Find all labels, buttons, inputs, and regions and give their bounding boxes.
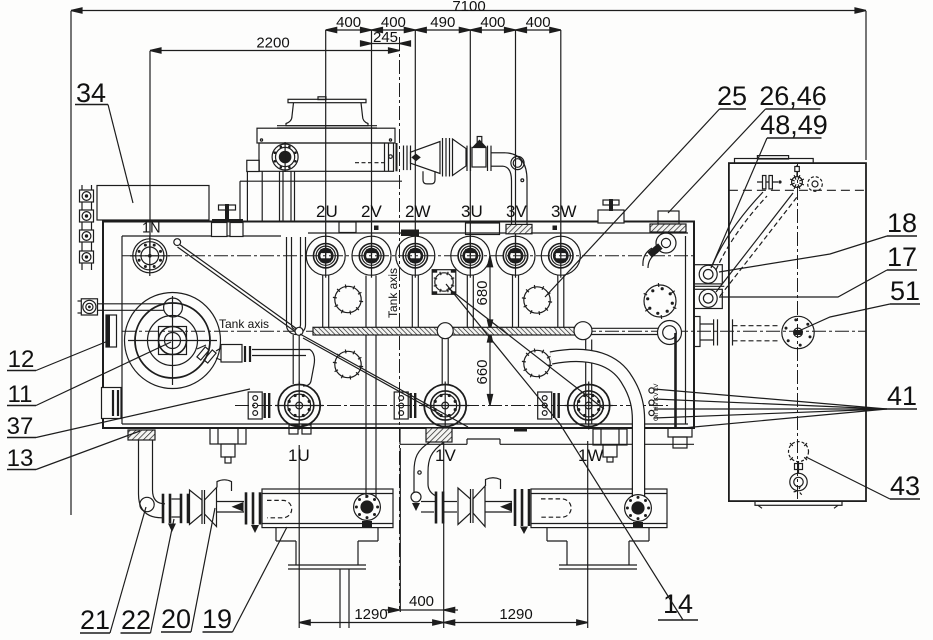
small valve at tank left edge	[78, 299, 98, 315]
dimension 2200	[150, 35, 400, 256]
svg-text:3V: 3V	[506, 202, 527, 221]
jack pad under tank left	[210, 428, 246, 463]
label 20 with leader	[161, 508, 215, 634]
diagonal brace to lower right	[300, 334, 468, 427]
svg-text:34: 34	[76, 78, 106, 108]
butterfly valve item 20	[190, 480, 232, 527]
dashed circle fitting on conservator	[808, 177, 823, 192]
conservator top lid	[735, 156, 814, 164]
horizontal tank axis center line	[122, 330, 866, 332]
label 34 with leader	[75, 78, 133, 203]
svg-text:25: 25	[717, 81, 747, 111]
flange pair B	[181, 494, 188, 524]
svg-text:20: 20	[161, 604, 191, 634]
valve handle on top of manhole	[98, 298, 183, 317]
stud pedestal near 3W	[598, 199, 624, 223]
curved pipe from roller 17 to conservator	[716, 193, 797, 296]
right cooler pedestal	[547, 528, 649, 569]
label 51 with leader	[801, 276, 920, 330]
vertical tank axis center line	[399, 37, 401, 612]
pipe stem under 3V	[513, 276, 519, 328]
ladder bracket strip left	[80, 185, 94, 270]
right cooler box	[531, 489, 667, 528]
corner circle fitting	[643, 233, 676, 268]
valve cross fitting on conservator	[790, 165, 804, 189]
pipe from strip down to 1W	[586, 340, 592, 425]
svg-text:660: 660	[474, 359, 491, 384]
svg-text:14: 14	[663, 589, 693, 619]
bushing 2U	[306, 234, 345, 278]
pipe from strip down to 1U	[293, 335, 299, 384]
label 37 with leader	[7, 389, 250, 440]
bolted opening circle 1	[333, 285, 363, 315]
pipe stem under 2V down to cooler	[366, 276, 376, 499]
square fitting item 14 target	[432, 270, 456, 295]
left edge bracket lower	[102, 388, 122, 419]
turret drum on cable box	[277, 97, 377, 128]
svg-text:21: 21	[80, 605, 110, 635]
bolt dots on tank top band	[374, 226, 557, 231]
cable box flange with dark center	[272, 142, 298, 172]
dimension 245	[360, 29, 411, 46]
bottom dimension 400	[385, 593, 458, 613]
U-turn pipe from cable box legs	[287, 237, 306, 335]
svg-text:2W: 2W	[405, 202, 431, 221]
bushing 1V	[421, 382, 469, 430]
svg-text:400: 400	[480, 14, 505, 31]
joint circle at strip left end	[295, 327, 303, 335]
svg-text:19: 19	[202, 604, 232, 634]
svg-text:Tank axis: Tank axis	[219, 317, 269, 331]
small pads under 1U	[289, 425, 311, 434]
center line of bottom bushing row	[235, 405, 668, 407]
cooler left flange stack	[246, 492, 260, 533]
conservator drain dashed circle	[789, 442, 809, 462]
dark lug under elbow flange	[514, 428, 527, 432]
butterfly valve on 1V pipe	[444, 478, 501, 527]
svg-text:13: 13	[7, 445, 34, 472]
manhole flange item 11	[125, 293, 221, 389]
svg-text:400: 400	[336, 14, 361, 31]
svg-text:2U: 2U	[316, 202, 338, 221]
label 21 with leader	[80, 507, 146, 635]
drop pipe from flange	[139, 440, 153, 494]
svg-text:22: 22	[121, 605, 151, 635]
pipe stem under 3W	[558, 276, 564, 328]
phase labels bottom row	[288, 446, 604, 465]
label 43 with leader	[806, 457, 920, 501]
elbow at bottom left	[139, 490, 166, 518]
thin rod from fitting near 1N to strip	[174, 239, 297, 332]
oil level dashed line	[729, 189, 866, 191]
svg-text:43: 43	[890, 471, 920, 501]
svg-text:1290: 1290	[354, 606, 387, 623]
label 25 with leader	[545, 81, 747, 297]
S-pipe from 1V down	[411, 442, 444, 512]
svg-text:400: 400	[526, 14, 551, 31]
svg-text:37: 37	[7, 413, 34, 440]
pipe to cooler with flow arrow	[217, 502, 245, 513]
label 13 with leader	[7, 431, 140, 472]
dark flanged valve on right cooler	[625, 495, 652, 528]
drain cock item 22	[168, 524, 176, 533]
gas relay box item 26,46 target	[650, 211, 686, 232]
phase labels top row	[316, 202, 577, 221]
dimension chain 400 400 490 400 400	[326, 14, 561, 255]
terminal bracket of 1V	[394, 392, 415, 419]
svg-text:48,49: 48,49	[760, 110, 828, 140]
bushing 3U	[451, 234, 490, 278]
bushing 3V	[496, 234, 535, 278]
bushing 1N	[130, 236, 170, 276]
conservator drain ticks	[790, 443, 807, 460]
label 18 with leader	[719, 208, 917, 272]
flange pair C	[412, 492, 443, 524]
label 14 with leader	[446, 284, 698, 620]
bottom dimension 1290 right	[444, 441, 588, 628]
diagonal rod from square fitting	[448, 288, 604, 409]
conservator tank outline	[729, 163, 866, 501]
svg-text:245: 245	[373, 29, 398, 46]
svg-text:2V: 2V	[361, 202, 382, 221]
lug on tank top between 2U and 2V	[339, 222, 356, 233]
svg-text:41: 41	[887, 381, 917, 411]
turret support column	[240, 160, 262, 221]
svg-text:51: 51	[890, 276, 920, 306]
label 41 with leader fan	[654, 381, 917, 428]
svg-text:11: 11	[8, 381, 33, 408]
drain valve item 43	[790, 462, 807, 495]
big pipe from opening to right cooler	[551, 355, 639, 497]
pipe from strip down to 1V	[442, 339, 448, 385]
bushing 2V	[352, 234, 391, 278]
bolted opening circle 3	[333, 350, 363, 380]
svg-text:1N: 1N	[142, 221, 161, 237]
thermometer pocket circles item 41 targets	[649, 388, 654, 416]
terminal bracket of 1W	[538, 392, 559, 419]
dark flanged valve on left cooler	[354, 494, 381, 527]
terminal bracket of 1U	[248, 392, 269, 419]
left edge bracket item 12	[106, 315, 117, 347]
valve on top pipe with handle	[467, 137, 491, 172]
bottom skirt tray under tank right half	[400, 428, 694, 445]
tank right edge roller item 17	[694, 286, 724, 308]
dimension 7100 overall	[71, 0, 866, 515]
joint circle above 1V	[437, 323, 453, 339]
svg-text:400: 400	[409, 593, 434, 610]
joint circle above 1W	[574, 322, 592, 340]
svg-text:7100: 7100	[452, 0, 485, 15]
lug on tank top between 3U and 3V	[466, 223, 500, 235]
hatched flange below tank bottom left	[128, 430, 155, 440]
elbow pipe turning down to tank top	[491, 153, 527, 224]
ball joint on tank axis at right edge	[658, 321, 682, 345]
hatched crossbar strip on tank axis	[313, 327, 580, 335]
cable box	[247, 128, 402, 181]
corner steps bottom right of tank	[668, 428, 692, 448]
label 17 with leader	[719, 242, 917, 297]
label 26,46 with leader	[668, 81, 827, 213]
conservator pipe flange item 51	[782, 316, 814, 348]
pipe to conservator with flanges	[694, 317, 780, 347]
bushing 1U	[275, 382, 323, 430]
svg-text:1U: 1U	[288, 446, 310, 465]
svg-text:1V: 1V	[435, 446, 456, 465]
conservator vertical center line	[797, 163, 799, 501]
thermometer pocket labels	[653, 383, 660, 421]
equipment box item 34	[97, 186, 209, 221]
main tank outline	[103, 222, 694, 429]
hatched flange below 1V	[426, 428, 452, 442]
turret legs down to tank	[280, 171, 295, 221]
label 11 with leader	[7, 342, 171, 408]
breather fitting H-bolt on conservator	[757, 176, 782, 189]
svg-text:1W: 1W	[578, 446, 604, 465]
svg-text:26,46: 26,46	[759, 81, 827, 111]
label 12 with leader	[7, 341, 108, 373]
left cooler box item 19	[262, 489, 393, 528]
bushing 3W	[541, 234, 580, 278]
tank right edge rollers item 18	[694, 265, 722, 284]
flange pair A	[163, 494, 180, 524]
svg-text:Tank axis: Tank axis	[386, 268, 400, 318]
label 22 with leader	[121, 519, 175, 635]
svg-text:1290: 1290	[499, 606, 532, 623]
dimension 680 and 660 vertical	[474, 256, 493, 406]
svg-text:12: 12	[8, 346, 35, 373]
conservator bottom lid	[755, 501, 842, 508]
small valve assembly right of manhole item 37	[197, 345, 315, 387]
left cooler pedestal	[276, 528, 378, 628]
strip extension to right edge	[580, 328, 658, 334]
bottom dimension 1290 left	[299, 436, 444, 628]
svg-text:3U: 3U	[461, 202, 483, 221]
svg-text:Oil: Oil	[653, 413, 660, 422]
bushing 2W	[396, 234, 435, 278]
bolted opening circle 2	[522, 285, 552, 315]
center line of top bushing row	[122, 255, 694, 257]
pipe to right cooler with flow arrow	[486, 502, 513, 513]
svg-text:17: 17	[887, 242, 917, 272]
label 19 with leader	[202, 527, 287, 634]
dark lug under 2W label	[401, 230, 419, 237]
jack pad under tank right	[593, 429, 627, 462]
bolted opening circle 4	[522, 349, 552, 379]
svg-text:18: 18	[887, 208, 917, 238]
svg-text:490: 490	[430, 14, 455, 31]
pipe stem under 2W	[412, 276, 418, 328]
svg-text:2200: 2200	[256, 35, 289, 52]
right cooler left flange stack	[515, 489, 529, 534]
svg-text:3W: 3W	[551, 202, 577, 221]
bold conduit at tank right edge	[674, 333, 677, 428]
curved pipe from roller 18 to conservator	[712, 192, 767, 270]
stud pedestal left of 2U	[212, 204, 244, 237]
svg-text:680: 680	[474, 280, 491, 305]
expansion joint piping right of cable box	[397, 138, 467, 184]
pipe stem under 2U	[323, 276, 329, 328]
small dot on 1V S-pipe	[418, 471, 421, 474]
bushing 1W	[565, 382, 613, 430]
pipe stem under 3U	[467, 276, 473, 328]
label 48,49 with leader	[711, 110, 828, 268]
400 dim extension line	[399, 448, 401, 612]
main tank inner wall	[122, 233, 688, 424]
hatched flange of elbow on tank top	[506, 224, 532, 233]
bolted flange circle right part	[644, 283, 677, 319]
